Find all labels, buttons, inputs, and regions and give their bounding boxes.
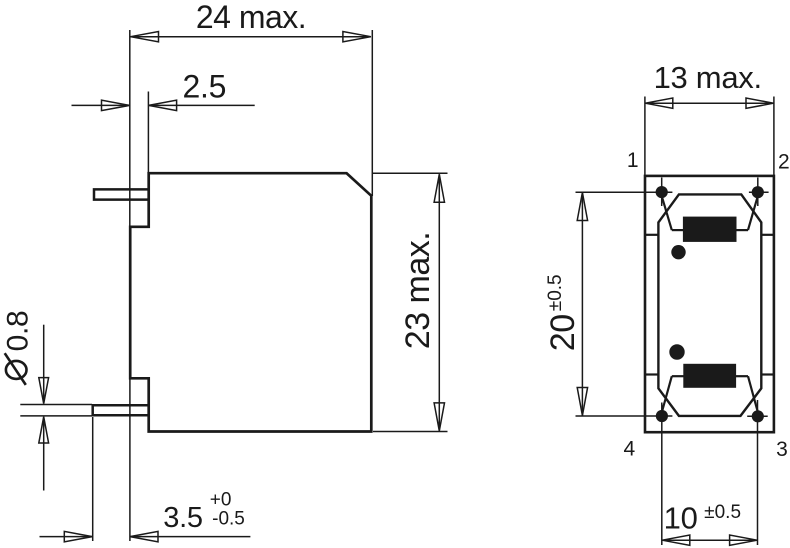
pin 3 diagonal link — [748, 376, 758, 412]
dimension 24 max extension line right — [371, 30, 373, 196]
svg-text:+0: +0 — [210, 490, 232, 511]
dimension 24 max arrow left — [131, 32, 159, 42]
dimension 13 max extension line left — [644, 97, 646, 176]
dimension 24 max line — [131, 36, 371, 38]
pin 4 centerline horizontal (20 dim extension) — [576, 415, 673, 417]
dimension 23 max arrow top — [434, 174, 444, 202]
pin 3 centerline vertical (10 dim extension) — [757, 400, 759, 545]
dimension 24 max arrow right — [343, 32, 371, 42]
svg-text:20: 20 — [544, 314, 582, 351]
dimension 13 max arrow right — [746, 98, 774, 108]
dimension 10 arrow right — [730, 535, 758, 545]
svg-text:2.5: 2.5 — [183, 68, 227, 104]
dimension 2.5 arrow left — [102, 100, 130, 110]
dimension 10 arrow left — [662, 535, 690, 545]
case side groove tick bottom-right — [761, 373, 774, 375]
dimension dia 0.8 extension line top — [20, 404, 92, 406]
terminal ledge bottom-right — [736, 375, 748, 377]
dimension 23 max arrow bottom — [434, 403, 444, 431]
dimension 2.5 extension line — [147, 92, 149, 174]
bottom view outer case rectangle — [645, 176, 774, 432]
case side groove tick top-left — [645, 234, 658, 236]
svg-text:±0.5: ±0.5 — [704, 502, 741, 523]
terminal slot bottom (filled) — [683, 364, 736, 388]
svg-text:2: 2 — [778, 150, 790, 173]
pin 4 diagonal link — [662, 376, 672, 412]
terminal ledge bottom-left — [672, 375, 684, 377]
dimension dia 0.8 extension line bottom — [20, 415, 92, 417]
top pin (side view) — [94, 189, 150, 199]
dimension dia 0.8 line upper — [43, 325, 45, 404]
svg-text:4: 4 — [623, 437, 635, 460]
dimension 23 max line — [438, 174, 440, 431]
pin 2 centerline vertical — [757, 178, 759, 207]
case side groove tick bottom-left — [645, 373, 658, 375]
bottom pin (side view) — [93, 405, 150, 415]
dimension 13 max arrow left — [645, 98, 673, 108]
dimension 3.5 arrow right — [130, 531, 158, 541]
svg-text:-0.5: -0.5 — [212, 509, 245, 530]
dimension 23 max extension line top — [373, 172, 448, 174]
projection bump upper (filled circle) — [671, 245, 685, 259]
dimension dia 0.8 label: diameter symbol circle — [6, 361, 27, 379]
svg-text:23 max.: 23 max. — [399, 232, 437, 349]
dimension 10 line — [662, 539, 758, 541]
terminal ledge top-right — [736, 229, 748, 231]
svg-text:3.5: 3.5 — [163, 502, 202, 534]
pin 1 diagonal link — [662, 196, 672, 230]
svg-text:13 max.: 13 max. — [654, 60, 762, 95]
dimension dia 0.8 arrow upper — [39, 378, 49, 404]
pin 1 centerline vertical — [661, 178, 663, 207]
svg-text:3: 3 — [776, 438, 788, 461]
pin 2 diagonal link — [748, 196, 758, 230]
pin 4 (filled circle) — [656, 410, 668, 422]
svg-text:10: 10 — [664, 501, 698, 536]
terminal slot top (filled) — [683, 217, 737, 242]
dimension 13 max extension line right — [773, 97, 775, 176]
terminal ledge top-left — [672, 229, 684, 231]
relay body outline (side view) — [130, 173, 371, 431]
dimension dia 0.8 line lower — [43, 417, 45, 491]
case side groove tick top-right — [761, 234, 774, 236]
svg-text:1: 1 — [627, 149, 639, 172]
dimension 3.5 extension line left — [92, 417, 94, 541]
bottom view inner base outline — [658, 194, 761, 416]
dimension dia 0.8 arrow lower — [39, 417, 49, 443]
pin 1 (filled circle) — [656, 186, 668, 198]
dimension 23 max extension line bottom — [373, 431, 448, 433]
dimension 2.5 arrow right — [149, 100, 177, 110]
projection bump lower (filled circle) — [669, 344, 684, 359]
pin 3 (filled circle) — [752, 410, 764, 422]
dimension 2.5 line right tail — [149, 104, 255, 106]
svg-text:±0.5: ±0.5 — [545, 274, 566, 311]
dimension 20 arrow top — [577, 193, 587, 221]
dimension dia 0.8 label: diameter symbol slash — [5, 353, 26, 385]
pin 2 centerline horizontal — [749, 191, 769, 193]
dimension 3.5 extension line right — [129, 378, 131, 541]
pin 3 centerline horizontal — [747, 415, 768, 417]
dimension 24 max extension line left — [129, 30, 131, 227]
svg-text:0.8: 0.8 — [2, 311, 35, 352]
svg-text:24 max.: 24 max. — [196, 0, 306, 35]
dimension 3.5 arrow left — [64, 531, 92, 541]
dimension 3.5 line left tail — [40, 536, 93, 538]
pin 1 centerline horizontal (20 dim extension) — [576, 191, 673, 193]
dimension 20 arrow bottom — [577, 388, 587, 416]
dimension 20 line — [581, 193, 583, 416]
dimension 13 max line — [645, 102, 774, 104]
dimension 2.5 line left tail — [72, 104, 130, 106]
pin 2 (filled circle) — [752, 186, 764, 198]
dimension 3.5 line right tail — [130, 536, 250, 538]
pin 4 centerline vertical (10 dim extension) — [661, 403, 663, 546]
